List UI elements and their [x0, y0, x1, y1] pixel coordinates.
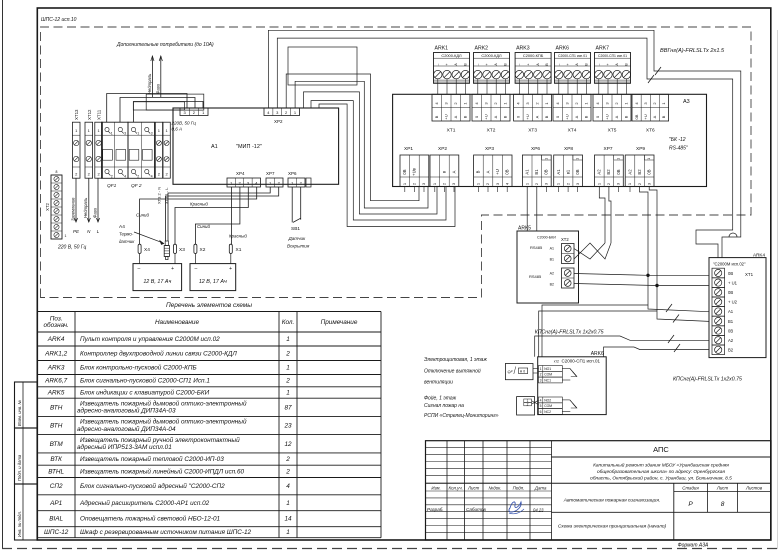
ARK4 terminal В1	[712, 316, 725, 326]
svg-text:В1: В1	[728, 319, 734, 324]
svg-text:Контроллер двухпроводной линии: Контроллер двухпроводной линии связи С20…	[80, 349, 237, 357]
terminal XT13	[72, 122, 80, 178]
svg-text:87: 87	[284, 404, 292, 411]
svg-text:вентиляции: вентиляции	[424, 380, 453, 386]
wire stub under A3 connector	[423, 187, 425, 193]
svg-text:Фаза: Фаза	[156, 84, 161, 94]
svg-text:Блок сигнально-пусковой адресн: Блок сигнально-пусковой адресный "С2000-…	[80, 482, 225, 490]
svg-text:8: 8	[56, 170, 58, 174]
RS485 bus wire A (XP9 down to ARK4 A1)	[640, 187, 709, 312]
svg-text:В: В	[583, 115, 588, 118]
svg-text:Х2: Х2	[200, 247, 206, 253]
wire XP4.4 blue to X4	[140, 187, 257, 244]
svg-text:Блок контрольно-пусковой С2000: Блок контрольно-пусковой С2000-КПБ	[80, 364, 197, 372]
svg-text:Изм.: Изм.	[431, 486, 440, 491]
wire QF1 pole1 to A1 terminal pin3	[107, 94, 187, 123]
svg-text:PE: PE	[73, 229, 80, 234]
svg-text:ХР1: ХР1	[404, 146, 413, 152]
svg-text:1: 1	[286, 390, 290, 397]
svg-text:ХТ1: ХТ1	[745, 272, 754, 277]
svg-text:Инв. № подл.: Инв. № подл.	[17, 511, 22, 537]
svg-text:Сигнал пожар на: Сигнал пожар на	[424, 403, 464, 409]
svg-text:Дата: Дата	[534, 486, 547, 491]
svg-text:общеобразовательная школа» по: общеобразовательная школа» по адресу: Ор…	[597, 469, 725, 475]
wire stub XP8	[577, 187, 579, 193]
svg-text:ВВГнг(А)-FRLSLТх 2х1.5: ВВГнг(А)-FRLSLТх 2х1.5	[660, 48, 725, 54]
svg-text:–: –	[436, 63, 440, 65]
svg-text:В2: В2	[606, 169, 611, 175]
svg-text:С2000-СП1 исп.01: С2000-СП1 исп.01	[562, 359, 601, 364]
svg-text:А2: А2	[550, 272, 554, 276]
svg-text:Синий: Синий	[136, 213, 149, 218]
svg-text:Блок индикации с клавиатурой С: Блок индикации с клавиатурой С2000-БКИ	[80, 389, 210, 397]
output connector (fire signal)	[517, 397, 535, 415]
svg-text:№док.: №док.	[489, 486, 502, 491]
wire XP7.2 to ARK5 B1 (twisted)	[609, 187, 611, 244]
title block	[426, 441, 772, 540]
wire 220V feed to ARK4 line 1	[268, 30, 740, 257]
svg-text:NC2: NC2	[544, 410, 551, 414]
svg-text:+: +	[566, 63, 570, 65]
svg-text:А: А	[493, 115, 498, 118]
svg-text:+ U1: + U1	[728, 280, 738, 285]
svg-text:Лист: Лист	[467, 486, 480, 491]
svg-text:Извещатель пожарный дымовой оп: Извещатель пожарный дымовой оптико-элект…	[80, 418, 247, 426]
svg-text:4: 4	[151, 175, 153, 179]
ARK5 terminal A1 B1	[562, 244, 575, 264]
svg-text:XT2: XT2	[45, 202, 50, 210]
svg-text:ARK4: ARK4	[753, 253, 765, 258]
twisted pair ARK5 to RS485 bus	[574, 243, 605, 259]
svg-text:адресно-аналоговый ДИП34А-04: адресно-аналоговый ДИП34А-04	[77, 425, 176, 433]
svg-text:RS485: RS485	[529, 274, 542, 279]
svg-text:ВТМ: ВТМ	[50, 441, 64, 448]
svg-text:КПСнг(А)-FRLSLТх 1х2х0.75: КПСнг(А)-FRLSLТх 1х2х0.75	[535, 330, 604, 336]
svg-text:Стадия: Стадия	[682, 486, 699, 491]
terminal group ХТ3 of A3	[514, 94, 552, 121]
svg-text:А1: А1	[728, 309, 734, 314]
svg-text:+U: +U	[495, 169, 500, 174]
svg-text:Н 0: Н 0	[520, 369, 525, 373]
wire loop A1 to A3 no.5	[304, 92, 438, 214]
wire XP6.1 to SB1	[291, 187, 293, 203]
svg-text:В2: В2	[550, 283, 554, 287]
svg-text:КПСнг(А)-FRLSLТх 1х2х0.75: КПСнг(А)-FRLSLТх 1х2х0.75	[673, 377, 742, 383]
svg-text:ХТ2: ХТ2	[561, 237, 569, 242]
wire XP7.1 to thermo sensor	[168, 187, 270, 241]
svg-text:Примечание: Примечание	[321, 319, 358, 326]
svg-text:220В, 50 Гц: 220В, 50 Гц	[171, 121, 197, 126]
svg-text:Взам. инв. №: Взам. инв. №	[17, 400, 22, 426]
terminal XT3.1 - L	[163, 122, 170, 178]
terminal group ХТ2 of A3	[472, 94, 510, 121]
svg-text:Термо-: Термо-	[119, 232, 134, 237]
svg-text:СП2: СП2	[50, 483, 63, 490]
svg-text:QF 2: QF 2	[131, 183, 142, 189]
svg-text:Кол.: Кол.	[282, 319, 295, 326]
svg-text:0В: 0В	[544, 169, 549, 174]
svg-text:Формат А3А: Формат А3А	[678, 543, 709, 549]
svg-text:2: 2	[137, 175, 139, 179]
wire ARK6 riser to ARK4 A2	[535, 336, 709, 357]
wire QF2 pole1 to A1 terminal pin1	[133, 102, 203, 123]
svg-text:12 В, 17 Ач: 12 В, 17 Ач	[143, 279, 171, 285]
svg-text:ARK6: ARK6	[591, 351, 604, 357]
svg-text:ARK6,7: ARK6,7	[44, 378, 67, 385]
svg-text:В: В	[462, 115, 467, 118]
svg-text:С2000-КПБ: С2000-КПБ	[523, 53, 544, 58]
svg-text:QF: QF	[508, 370, 514, 374]
cable mark KPS 4	[674, 344, 680, 352]
svg-text:Синий: Синий	[197, 224, 210, 229]
wire loop above breakers 2	[133, 102, 184, 110]
battery GB1 12V 17Ah	[133, 264, 182, 291]
svg-text:Красный: Красный	[190, 202, 208, 207]
wire XP6.1 to ARK5	[526, 187, 528, 232]
svg-text:В: В	[434, 115, 439, 118]
wire loop A1 to A3 no.7	[319, 104, 455, 227]
block A3 BK-12 RS-485	[393, 94, 707, 186]
wire stub under A3 connector	[453, 187, 455, 193]
svg-text:ХР9: ХР9	[636, 146, 645, 152]
svg-text:А2: А2	[728, 338, 734, 343]
svg-text:+: +	[229, 266, 232, 272]
svg-text:QF1: QF1	[107, 183, 117, 189]
wire loop A1 to A3 no.4	[295, 81, 428, 208]
svg-text:Автоматическая пожарная сигнал: Автоматическая пожарная сигнализация.	[563, 498, 660, 504]
svg-text:0В: 0В	[728, 328, 733, 333]
wire branch to ARK6 input 1	[542, 305, 648, 357]
svg-text:Сабитов: Сабитов	[466, 507, 486, 512]
svg-text:Капитальный ремонт здания МБОУ: Капитальный ремонт здания МБОУ «Уранбашс…	[593, 462, 729, 469]
svg-text:6: 6	[540, 410, 542, 414]
svg-text:область, Октябрьский район, с.: область, Октябрьский район, с. Уранбаш, …	[590, 475, 732, 482]
svg-text:А3: А3	[683, 99, 690, 105]
wire XP7.2 to thermo sensor	[166, 187, 279, 241]
svg-text:А: А	[535, 115, 540, 118]
svg-text:Электрощитовая, 1 этаж: Электрощитовая, 1 этаж	[424, 357, 487, 363]
svg-text:RS485: RS485	[530, 245, 543, 250]
signature	[509, 502, 521, 512]
svg-text:1: 1	[540, 367, 542, 371]
wire stub under A3 connector	[404, 187, 406, 193]
junction node RS485 A	[646, 274, 649, 277]
svg-text:0В: 0В	[728, 271, 733, 276]
svg-text:1: 1	[286, 365, 290, 372]
svg-text:С2000-СП1 исп.01: С2000-СП1 исп.01	[598, 54, 627, 58]
svg-text:–: –	[476, 63, 480, 65]
A1 mains terminal 3-2-1	[180, 108, 208, 116]
battery GB2 12V 17Ah	[190, 264, 236, 291]
ARK5 terminal A2 B2	[562, 268, 575, 288]
svg-text:ХТ4: ХТ4	[568, 128, 577, 134]
svg-text:А1: А1	[211, 144, 218, 150]
svg-text:Разраб.: Разраб.	[427, 507, 444, 512]
svg-text:Листов: Листов	[745, 486, 763, 491]
svg-text:2: 2	[285, 378, 290, 385]
ARK4 terminal 0В	[712, 326, 725, 336]
svg-text:4: 4	[124, 175, 126, 179]
svg-text:XT11: XT11	[97, 109, 102, 120]
svg-text:1: 1	[544, 158, 548, 160]
svg-text:ШПС-12 исп.10: ШПС-12 исп.10	[41, 17, 77, 23]
mains wires PE N L with arrows	[75, 178, 77, 222]
svg-text:АПС: АПС	[653, 445, 669, 454]
wire stub under A3 connector	[487, 187, 489, 193]
terminal group ХТ5 of A3	[593, 94, 631, 121]
svg-text:"МИП -12": "МИП -12"	[236, 144, 262, 150]
svg-text:ХР7: ХР7	[604, 146, 613, 152]
svg-text:+ U2: + U2	[728, 300, 738, 305]
A1 output connector XP2	[264, 108, 300, 116]
junction node RS485 B	[655, 284, 658, 287]
svg-text:Нейтраль: Нейтраль	[83, 198, 88, 218]
svg-text:XT12: XT12	[87, 109, 92, 120]
ARK6 relay contact group	[539, 366, 563, 372]
svg-text:+U: +U	[483, 114, 488, 119]
svg-text:Дополнительные потребители (до: Дополнительные потребители (до 10А)	[116, 42, 214, 48]
wire to ARK6.4 crossed	[532, 400, 539, 404]
svg-text:А1: А1	[550, 247, 554, 251]
svg-text:COM: COM	[544, 373, 552, 377]
wire XP6.2 to ARK5	[536, 187, 538, 232]
wire QF to ARK6.1	[533, 368, 539, 370]
svg-text:ХТ3: ХТ3	[528, 128, 537, 134]
svg-text:В: В	[502, 115, 507, 118]
RS485 bus wire B (XP9 down to ARK4 B1)	[649, 187, 709, 322]
svg-text:обознач.: обознач.	[43, 321, 68, 329]
wire to ARK6.5 crossed	[532, 401, 539, 405]
ARK4 terminal 0В	[712, 287, 725, 297]
svg-text:ШПС-12: ШПС-12	[44, 529, 69, 536]
svg-text:23: 23	[283, 423, 292, 430]
svg-text:–: –	[517, 63, 521, 65]
svg-text:А1: А1	[556, 169, 561, 175]
wire stub XP8	[567, 187, 569, 193]
svg-text:XT3.2 - N: XT3.2 - N	[157, 187, 162, 204]
svg-text:Извещатель пожарный дымовой оп: Извещатель пожарный дымовой оптико-элект…	[80, 400, 247, 408]
svg-text:Пульт контроля и управления С2: Пульт контроля и управления С2000М исп.0…	[80, 336, 220, 343]
wire 220V feed to ARK4 line 2	[277, 38, 732, 258]
svg-text:А: А	[574, 115, 579, 118]
svg-text:–: –	[597, 63, 601, 65]
wire stub under A3 connector	[477, 187, 479, 193]
svg-text:С2000-КДЛ: С2000-КДЛ	[441, 53, 462, 58]
svg-text:ARK4: ARK4	[47, 336, 65, 343]
connector Х1	[229, 244, 232, 253]
svg-text:"С2000М исп.02": "С2000М исп.02"	[713, 262, 746, 267]
svg-text:+: +	[445, 63, 449, 65]
svg-text:ХТ2: ХТ2	[487, 128, 496, 134]
svg-text:ВТН: ВТН	[50, 404, 63, 411]
ARK4 terminal А2	[712, 335, 725, 345]
svg-text:Х4: Х4	[144, 247, 150, 253]
svg-text:Шкаф с резервированным источни: Шкаф с резервированным источником питани…	[80, 529, 252, 536]
wire ARK6 relay riser to ARK4 B2	[604, 347, 709, 357]
svg-text:ХР8: ХР8	[564, 146, 573, 152]
wire XP6.2 to SB1	[300, 187, 302, 203]
svg-text:+: +	[606, 63, 610, 65]
svg-text:1: 1	[286, 529, 290, 536]
feeder arrows to additional consumers	[151, 56, 153, 97]
ARK4 terminal А1	[712, 307, 725, 317]
svg-text:ВТК: ВТК	[50, 456, 63, 463]
svg-text:ARK3: ARK3	[516, 46, 530, 52]
wire loop above breakers	[146, 94, 204, 110]
svg-text:4: 4	[540, 398, 542, 402]
svg-text:ХР6: ХР6	[288, 171, 297, 176]
svg-text:ARK6: ARK6	[556, 46, 570, 52]
svg-text:С2000-СП1 исп.01: С2000-СП1 исп.01	[558, 54, 587, 58]
cable mark VVG 1	[655, 67, 661, 75]
svg-text:В: В	[661, 115, 666, 118]
wire ARK5 B2 through bus to ARK4 +U1	[574, 284, 709, 286]
svg-text:Перечень элементов схемы: Перечень элементов схемы	[166, 302, 252, 309]
svg-text:XT13: XT13	[74, 109, 79, 120]
svg-text:А2: А2	[627, 169, 632, 175]
svg-text:0В: 0В	[402, 169, 407, 174]
svg-text:А: А	[451, 170, 456, 173]
svg-text:ARK5: ARK5	[47, 390, 65, 397]
tamper switch SB1	[291, 203, 293, 222]
svg-text:NO2: NO2	[544, 398, 551, 402]
terminal strip XT2 (mains input)	[51, 175, 62, 239]
svg-text:Вскрытия: Вскрытия	[287, 244, 310, 249]
svg-text:12: 12	[284, 441, 292, 448]
circuit breaker QF 2	[128, 122, 155, 178]
svg-text:3: 3	[124, 132, 126, 136]
svg-text:Схема электрическая принципиал: Схема электрическая принципиальная (нача…	[558, 524, 667, 530]
svg-text:XT3.1 - L: XT3.1 - L	[164, 187, 169, 204]
svg-text:–: –	[557, 63, 561, 65]
svg-text:+Uв: +Uв	[412, 167, 417, 175]
terminal XT3.2 - N	[155, 122, 162, 178]
svg-text:адресный ИПР513-3АМ испл.01: адресный ИПР513-3АМ испл.01	[77, 443, 172, 451]
svg-text:В1: В1	[534, 169, 539, 175]
svg-text:Адресный расширитель С2000-АР1: Адресный расширитель С2000-АР1 исп.02	[79, 499, 210, 507]
svg-text:А: А	[453, 115, 458, 118]
svg-text:2: 2	[540, 373, 542, 377]
svg-text:ARK1: ARK1	[435, 46, 449, 52]
circuit breaker QF1	[102, 122, 129, 178]
svg-text:А: А	[485, 170, 490, 173]
svg-text:Заземление: Заземление	[71, 197, 76, 221]
cabinet ShPS-12 dashed enclosure	[41, 27, 752, 298]
svg-text:ХР2: ХР2	[438, 146, 447, 152]
wire XP4.2 blue to X2	[195, 187, 240, 244]
thermo sensor A4	[165, 241, 168, 246]
svg-text:–: –	[138, 266, 141, 272]
svg-text:ARK1,2: ARK1,2	[44, 350, 67, 357]
svg-text:3: 3	[151, 132, 153, 136]
terminal group ХТ4 of A3	[553, 94, 591, 121]
svg-text:–: –	[195, 266, 198, 272]
wire XP4.3 red to X3	[175, 187, 248, 244]
cable mark KPS 2	[673, 315, 679, 323]
wire loop A1 to A3 no.3	[286, 74, 419, 201]
svg-text:ВТНL: ВТНL	[48, 468, 64, 475]
svg-text:+U: +U	[604, 114, 609, 119]
svg-text:1: 1	[137, 132, 139, 136]
svg-text:В: В	[623, 115, 628, 118]
svg-text:ARK7: ARK7	[596, 46, 610, 52]
svg-text:1: 1	[111, 132, 113, 136]
svg-text:Х3: Х3	[179, 247, 185, 253]
svg-text:0В: 0В	[634, 114, 639, 119]
svg-text:ХТ5: ХТ5	[608, 128, 617, 134]
wire stub under A3 connector	[413, 187, 415, 193]
svg-text:220 В, 50 Гц: 220 В, 50 Гц	[57, 245, 87, 251]
svg-text:2: 2	[285, 468, 290, 475]
svg-text:Лист: Лист	[716, 486, 729, 491]
svg-text:1: 1	[576, 158, 580, 160]
svg-text:Подп.: Подп.	[513, 486, 525, 491]
wire ARK5 A2 through bus to ARK4 0V	[574, 274, 709, 276]
svg-text:С2000-БКИ: С2000-БКИ	[537, 236, 556, 240]
connector Х2	[194, 244, 197, 253]
cable mark VVG 2	[648, 75, 654, 83]
contactor QF vent shutdown	[505, 364, 533, 380]
terminal group ХТ1 of A3	[432, 94, 470, 121]
svg-text:Отключение вытяжной: Отключение вытяжной	[424, 368, 481, 375]
wire stub under A3 connector	[434, 187, 436, 193]
wire stub under A3 connector	[443, 187, 445, 193]
wire XP7.1 to ARK5 A1 (twisted)	[599, 187, 605, 244]
svg-text:2: 2	[527, 403, 529, 407]
svg-text:NO1: NO1	[544, 367, 551, 371]
svg-text:Красный: Красный	[229, 234, 247, 239]
svg-text:0В: 0В	[728, 290, 733, 295]
svg-text:В: В	[544, 115, 549, 118]
svg-text:COM: COM	[544, 404, 552, 408]
power supply module A1 MIP-12	[173, 108, 339, 184]
svg-text:+U: +U	[525, 114, 530, 119]
svg-text:BIAL: BIAL	[49, 516, 63, 523]
svg-text:А: А	[652, 115, 657, 118]
svg-text:+: +	[171, 266, 174, 272]
wire QF to ARK6.2	[533, 372, 539, 374]
svg-text:ХР3: ХР3	[485, 146, 494, 152]
svg-text:5: 5	[540, 404, 542, 408]
svg-text:в1: в1	[565, 169, 570, 174]
terminal group ХТ6 of A3	[632, 94, 669, 121]
wire branch to ARK6 input 2	[539, 311, 657, 357]
svg-text:Извещатель пожарный линейный С: Извещатель пожарный линейный С2000-ИПДЛ …	[80, 467, 244, 475]
svg-text:4: 4	[286, 483, 290, 490]
svg-text:Кол.уч.: Кол.уч.	[449, 486, 463, 491]
svg-text:ARK3: ARK3	[47, 365, 65, 372]
connector Х4	[138, 244, 141, 253]
wire stub XP8	[558, 187, 560, 193]
wire stub XP9.1	[629, 187, 631, 193]
svg-text:"БК -12: "БК -12	[669, 137, 686, 143]
svg-text:Датчик: Датчик	[288, 236, 307, 241]
svg-text:8: 8	[721, 501, 725, 508]
leader line A4	[134, 232, 162, 243]
wire stub XP6.3	[545, 187, 547, 193]
wire stub under A3 connector	[506, 187, 508, 193]
wire hop	[729, 233, 737, 237]
svg-text:0В: 0В	[505, 169, 510, 174]
svg-text:+U: +U	[443, 114, 448, 119]
svg-text:В2: В2	[637, 169, 642, 175]
svg-text:хт2: хт2	[554, 359, 559, 363]
svg-text:В1: В1	[550, 258, 554, 262]
svg-text:ВТН: ВТН	[50, 423, 63, 430]
svg-text:ХТ6: ХТ6	[646, 128, 655, 134]
inner wire loop	[288, 47, 357, 85]
svg-text:2: 2	[285, 350, 290, 357]
